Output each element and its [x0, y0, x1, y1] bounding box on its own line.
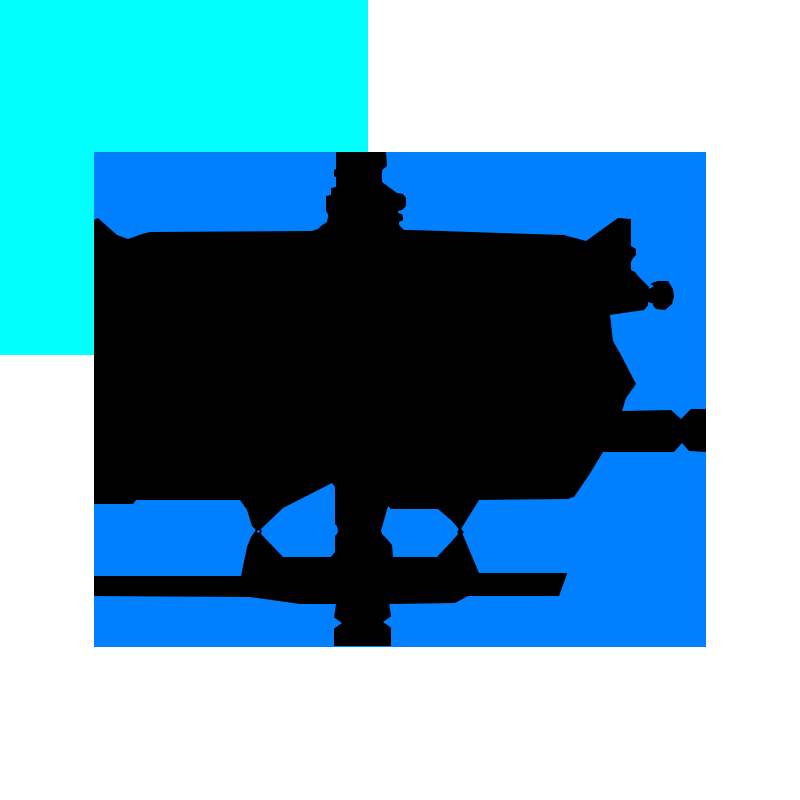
black main mass (pipe network body)	[94, 152, 706, 604]
blue canvas tank	[94, 152, 706, 647]
blue pipe band 1 with valve V1 left wedge	[94, 500, 256, 576]
blue notch right on drain valve V4	[383, 615, 393, 629]
black valve V1 waist ring	[255, 528, 261, 534]
blue valve V1 right wedge + knob	[261, 483, 338, 557]
blue notch below valve V5 waist	[648, 302, 654, 307]
blue notch above valve V5 waist	[648, 283, 654, 289]
blue valve V3 right wedge merging to basin	[461, 497, 573, 574]
black vertical drain stem	[334, 560, 391, 646]
black valve V3 waist diamond	[457, 528, 464, 536]
cyan reservoir square	[0, 0, 368, 355]
blue notch left on drain valve V4	[332, 616, 342, 630]
blue pipe lens between V2 and V3	[381, 506, 459, 557]
